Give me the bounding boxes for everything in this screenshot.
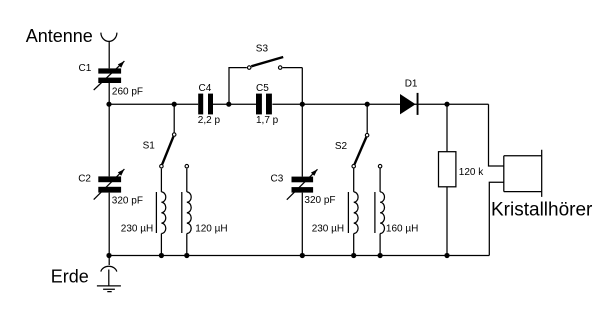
- svg-text:C4: C4: [199, 83, 212, 94]
- svg-text:320 pF: 320 pF: [112, 195, 143, 206]
- svg-text:C5: C5: [256, 83, 269, 94]
- svg-text:Erde: Erde: [51, 267, 89, 287]
- svg-text:2,2 p: 2,2 p: [198, 115, 221, 126]
- svg-text:C1: C1: [79, 63, 92, 74]
- svg-text:1,7 p: 1,7 p: [256, 115, 279, 126]
- svg-text:120 k: 120 k: [459, 167, 484, 178]
- svg-text:120 µH: 120 µH: [195, 223, 227, 234]
- svg-text:S1: S1: [143, 141, 156, 152]
- svg-text:230 µH: 230 µH: [121, 223, 153, 234]
- svg-text:C2: C2: [78, 174, 91, 185]
- svg-text:260 pF: 260 pF: [112, 87, 143, 98]
- svg-text:Antenne: Antenne: [26, 26, 93, 46]
- svg-text:230 µH: 230 µH: [312, 224, 344, 235]
- svg-text:D1: D1: [405, 79, 418, 90]
- svg-text:Kristallhörer: Kristallhörer: [491, 199, 593, 220]
- svg-text:S2: S2: [335, 141, 348, 152]
- svg-text:320 pF: 320 pF: [304, 195, 335, 206]
- svg-text:C3: C3: [271, 174, 284, 185]
- svg-text:S3: S3: [256, 43, 269, 54]
- svg-text:160 µH: 160 µH: [386, 224, 418, 235]
